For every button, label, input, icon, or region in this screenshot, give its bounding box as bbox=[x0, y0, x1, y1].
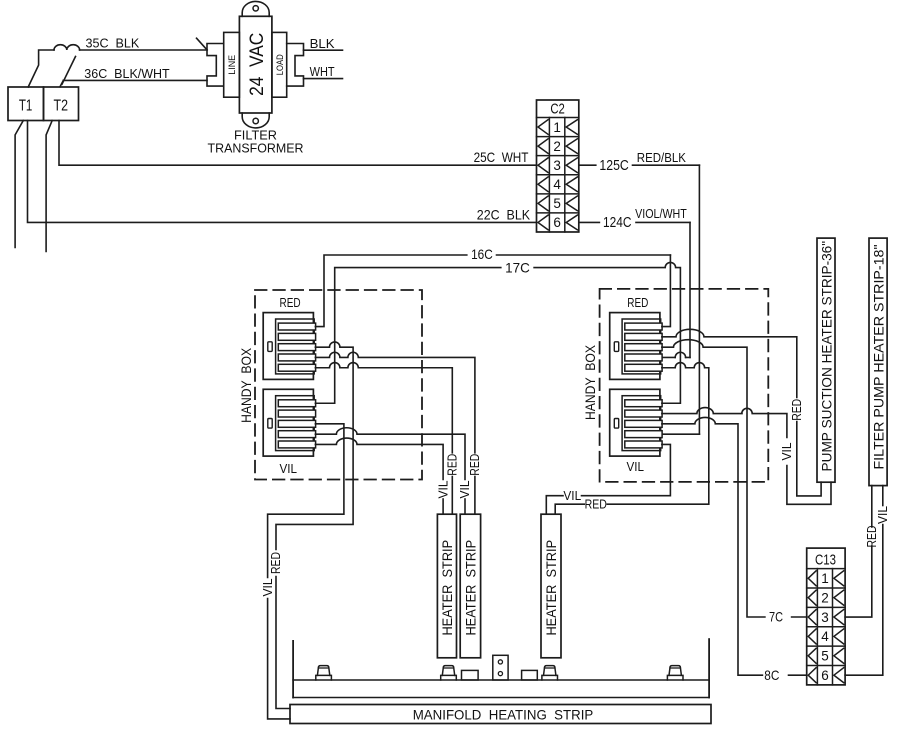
svg-text:HANDY BOX: HANDY BOX bbox=[583, 345, 598, 420]
wire right-top t3 to 7C / C13 pin 3 bbox=[662, 340, 807, 617]
wire left-bottom t5 to heater strip 1 VIL bbox=[315, 438, 443, 514]
svg-text:TRANSFORMER: TRANSFORMER bbox=[208, 141, 304, 156]
svg-text:6: 6 bbox=[821, 668, 829, 683]
switch slash at transformer line terminal bbox=[197, 38, 208, 50]
wire right-bottom t3 to 8C / C13 pin 6 bbox=[662, 417, 807, 675]
svg-text:3: 3 bbox=[821, 610, 829, 625]
svg-text:VIL: VIL bbox=[626, 459, 644, 474]
wire C13 pin 3 to filter pump strip RED bbox=[845, 486, 872, 617]
wire left-bottom t3 to manifold VIL bbox=[268, 424, 344, 719]
svg-text:PUMP SUCTION HEATER STRIP-36": PUMP SUCTION HEATER STRIP-36" bbox=[818, 241, 834, 472]
svg-text:VIL: VIL bbox=[279, 461, 297, 476]
svg-text:25C WHT: 25C WHT bbox=[474, 149, 529, 165]
svg-text:RED: RED bbox=[627, 295, 648, 310]
filter pump heater strip-18in box bbox=[869, 238, 887, 486]
manifold bar bbox=[293, 639, 709, 697]
heater strip 2 bbox=[460, 514, 480, 658]
transformer load-side terminal bracket bbox=[287, 44, 304, 87]
wire right-top t5 to middle heater strip RED bbox=[555, 363, 709, 515]
transformer LINE winding box bbox=[224, 32, 240, 97]
svg-text:RED: RED bbox=[280, 295, 301, 310]
svg-text:FILTER PUMP HEATER STRIP-18": FILTER PUMP HEATER STRIP-18" bbox=[870, 244, 886, 469]
wire 35C BLK (T1 to transformer line side) bbox=[28, 45, 207, 87]
svg-text:17C: 17C bbox=[505, 260, 530, 276]
svg-text:LINE: LINE bbox=[227, 55, 238, 75]
svg-text:RED: RED bbox=[468, 454, 482, 476]
wire WHT (transformer load) bbox=[304, 78, 343, 80]
svg-text:5: 5 bbox=[821, 649, 829, 664]
label FILTER TRANSFORMER bbox=[208, 128, 304, 156]
svg-text:24 VAC: 24 VAC bbox=[247, 33, 268, 96]
manifold terminal block 2 bbox=[522, 670, 538, 680]
svg-text:WHT: WHT bbox=[310, 64, 335, 79]
manifold cap 4 bbox=[667, 666, 683, 680]
svg-text:22C BLK: 22C BLK bbox=[477, 206, 531, 222]
svg-text:T1: T1 bbox=[19, 98, 33, 115]
wire 124C VIOL/WHT (C2 pin 6 to right handy box upper splice) bbox=[579, 222, 690, 357]
manifold terminal block (under heater strip 2) bbox=[462, 670, 479, 680]
svg-text:VIL: VIL bbox=[876, 506, 890, 524]
svg-text:RED: RED bbox=[865, 526, 879, 548]
svg-text:VIL: VIL bbox=[436, 480, 450, 498]
svg-text:36C BLK/WHT: 36C BLK/WHT bbox=[84, 66, 169, 81]
svg-text:VIL: VIL bbox=[563, 489, 581, 503]
svg-text:7C: 7C bbox=[769, 609, 783, 625]
wire left-top t5 to heater strip 1 RED bbox=[315, 363, 452, 515]
connector C2 bbox=[537, 100, 579, 232]
svg-text:MANIFOLD HEATING STRIP: MANIFOLD HEATING STRIP bbox=[413, 707, 594, 723]
svg-text:16C: 16C bbox=[471, 246, 493, 262]
svg-text:35C BLK: 35C BLK bbox=[86, 36, 140, 51]
svg-text:RED: RED bbox=[269, 552, 283, 574]
svg-text:125C: 125C bbox=[599, 158, 628, 174]
pump suction heater strip-36in box bbox=[817, 238, 835, 482]
heater strip 1 bbox=[437, 514, 456, 658]
wire C13 pin 6 to filter pump strip VIL bbox=[845, 486, 883, 676]
handy box left (dashed enclosure) bbox=[255, 290, 422, 480]
wire left-top t3 to manifold RED bbox=[276, 342, 353, 709]
handy box right (dashed enclosure) bbox=[600, 289, 769, 482]
svg-text:HEATER STRIP: HEATER STRIP bbox=[462, 540, 478, 636]
manifold heating strip label box bbox=[290, 705, 711, 724]
splice connector left-bottom (VIL) bbox=[263, 389, 315, 456]
svg-text:RED: RED bbox=[790, 399, 804, 421]
connector C13 bbox=[807, 548, 845, 685]
manifold cap 2 (under heater strip 1) bbox=[441, 666, 457, 680]
svg-text:HEATER STRIP: HEATER STRIP bbox=[439, 540, 455, 636]
manifold junction block with holes bbox=[493, 655, 508, 680]
svg-text:VIOL/WHT: VIOL/WHT bbox=[635, 207, 687, 221]
svg-text:1: 1 bbox=[553, 120, 561, 135]
wire 16C (left-top splice t1 to right-top splice t1) bbox=[315, 255, 670, 327]
terminal T1 bbox=[8, 87, 44, 121]
wire right-top t2 to pump suction strip RED bbox=[662, 329, 821, 496]
wire 125C RED/BLK (C2 pin 3 to right handy box lower splice) bbox=[579, 165, 700, 434]
svg-text:VIL: VIL bbox=[261, 578, 275, 596]
splice connector right-top (RED) bbox=[610, 313, 662, 380]
switch blade at T2 bbox=[62, 57, 76, 85]
svg-text:C2: C2 bbox=[550, 102, 565, 118]
svg-text:LOAD: LOAD bbox=[275, 54, 286, 75]
svg-text:4: 4 bbox=[821, 629, 829, 644]
svg-text:2: 2 bbox=[821, 590, 829, 605]
wire right-bottom t2 to pump suction strip VIL bbox=[662, 408, 831, 505]
svg-text:2: 2 bbox=[553, 139, 561, 154]
manifold cap 1 bbox=[316, 666, 332, 680]
svg-text:4: 4 bbox=[553, 177, 561, 192]
svg-text:T2: T2 bbox=[54, 98, 69, 115]
svg-text:HANDY BOX: HANDY BOX bbox=[239, 348, 254, 423]
svg-text:1: 1 bbox=[821, 571, 829, 586]
splice connector right-bottom (VIL) bbox=[610, 389, 662, 456]
wire 25C WHT (T2 to C2 pin 3) bbox=[59, 121, 537, 166]
heater strip 3 (middle) bbox=[541, 514, 561, 658]
manifold cap 3 (under heater strip 3) bbox=[542, 666, 558, 680]
wire 36C BLK/WHT (T2 to transformer line side) bbox=[60, 80, 207, 86]
svg-text:RED/BLK: RED/BLK bbox=[637, 151, 687, 165]
wire 22C BLK (T1 to C2 pin 6) bbox=[28, 121, 537, 223]
svg-text:3: 3 bbox=[553, 158, 561, 173]
svg-text:HEATER STRIP: HEATER STRIP bbox=[543, 540, 559, 636]
wire right-bottom t5 to middle heater strip VIL bbox=[546, 444, 670, 514]
wire BLK (transformer load) bbox=[304, 49, 343, 51]
transformer LOAD winding box bbox=[272, 32, 287, 97]
svg-text:BLK: BLK bbox=[310, 36, 335, 51]
splice connector left-top (RED) bbox=[263, 313, 315, 380]
svg-text:VIL: VIL bbox=[780, 442, 794, 460]
svg-text:8C: 8C bbox=[764, 667, 779, 683]
svg-text:124C: 124C bbox=[603, 215, 632, 231]
svg-text:RED: RED bbox=[585, 498, 607, 512]
terminal T2 bbox=[44, 87, 79, 121]
svg-text:6: 6 bbox=[553, 215, 561, 230]
svg-text:C13: C13 bbox=[815, 553, 836, 569]
wire left-top t4 to heater strip 2 RED bbox=[315, 352, 475, 514]
wire 17C (left-bottom splice t1 to right-bottom splice t1) bbox=[315, 262, 680, 403]
svg-text:5: 5 bbox=[553, 196, 561, 211]
svg-text:VIL: VIL bbox=[458, 480, 472, 498]
wire from T1 to lower feed (dead end) bbox=[15, 121, 23, 248]
wire from T2 to lower feed (dead end) bbox=[46, 121, 52, 252]
filter transformer body 24 VAC bbox=[239, 1, 272, 128]
wire left-bottom t4 to heater strip 2 VIL bbox=[315, 428, 465, 514]
transformer line-side terminal bracket bbox=[207, 44, 224, 87]
svg-text:RED: RED bbox=[446, 454, 460, 476]
